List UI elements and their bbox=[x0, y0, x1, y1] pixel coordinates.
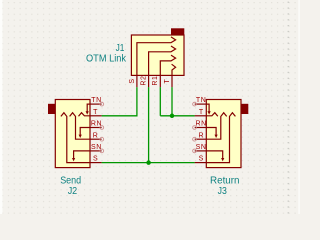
J1 contact R2 bbox=[149, 46, 176, 75]
wire T net horizontal to J3.T bbox=[160, 115, 195, 117]
J2 pin R bbox=[90, 138, 102, 140]
J2 pin SN bbox=[90, 150, 102, 152]
wire J1.T down bbox=[171, 87, 173, 116]
J1 body bbox=[131, 35, 184, 75]
svg-text:Send: Send bbox=[60, 175, 81, 186]
J3 pin S bbox=[195, 162, 207, 164]
svg-text:S: S bbox=[199, 156, 204, 163]
svg-text:TN: TN bbox=[91, 97, 102, 104]
J2 switch TN arrow bbox=[87, 104, 90, 112]
svg-text:OTM Link: OTM Link bbox=[86, 54, 127, 65]
svg-text:R: R bbox=[93, 132, 98, 139]
J1 sleeve mark bbox=[171, 28, 184, 35]
svg-text:SN: SN bbox=[196, 144, 207, 151]
J1 pin S bbox=[136, 75, 138, 87]
J2 switch SN arrow bbox=[74, 151, 90, 159]
J3 contact R bbox=[206, 113, 226, 140]
J2 pin TN bbox=[90, 103, 102, 105]
J3 contact S bbox=[206, 113, 235, 163]
wire J1.R2 down to S net bbox=[148, 87, 150, 163]
J2 switch RN arrow bbox=[80, 128, 90, 136]
svg-text:S: S bbox=[93, 156, 98, 163]
J2 pin T bbox=[90, 115, 102, 117]
svg-text:J2: J2 bbox=[68, 186, 78, 197]
svg-text:R1: R1 bbox=[152, 76, 159, 86]
J2 contact S bbox=[61, 113, 90, 163]
J1 pin T bbox=[171, 75, 173, 87]
svg-text:RN: RN bbox=[91, 121, 102, 128]
J2 pin RN bbox=[90, 127, 102, 129]
J3 switch SN arrow bbox=[206, 151, 222, 159]
svg-text:TN: TN bbox=[196, 97, 207, 104]
J3 pin R bbox=[195, 138, 207, 140]
svg-text:T: T bbox=[199, 109, 204, 116]
J3 switch TN arrow bbox=[206, 104, 209, 112]
J1 contact S bbox=[137, 37, 176, 76]
connector J1 bbox=[131, 28, 184, 87]
svg-text:Return: Return bbox=[210, 175, 240, 186]
J3 unconnected pin circles bbox=[193, 102, 197, 152]
J2 sleeve mark bbox=[48, 104, 55, 114]
wire J1.R1 to T net bbox=[159, 87, 161, 116]
J1 pin R1 bbox=[159, 75, 161, 87]
J2 contact T bbox=[79, 113, 91, 117]
J3 contact T bbox=[206, 113, 218, 117]
J2 unconnected pin circles bbox=[100, 102, 104, 152]
svg-text:J3: J3 bbox=[218, 186, 228, 197]
J1 pin R2 bbox=[148, 75, 150, 87]
J3 pin T bbox=[195, 115, 207, 117]
svg-text:S: S bbox=[129, 79, 136, 84]
svg-text:R: R bbox=[198, 132, 203, 139]
J2 pin S bbox=[90, 162, 102, 164]
connector J2 bbox=[48, 100, 102, 168]
J3 pin SN bbox=[195, 150, 207, 152]
svg-text:RN: RN bbox=[195, 121, 206, 128]
J3 sleeve mark bbox=[241, 104, 248, 114]
wire J1.S to J2.T bbox=[102, 87, 137, 116]
svg-text:SN: SN bbox=[91, 144, 102, 151]
J3 switch RN arrow bbox=[206, 128, 216, 136]
wire S net J2.S to J3.S bbox=[102, 162, 195, 164]
svg-text:R2: R2 bbox=[141, 76, 148, 86]
J1 contact T bbox=[172, 64, 176, 75]
junction T net bbox=[170, 114, 175, 119]
J3 body bbox=[206, 100, 241, 168]
svg-text:J1: J1 bbox=[116, 43, 125, 54]
J3 pin RN bbox=[195, 127, 207, 129]
J3 pin TN bbox=[195, 103, 207, 105]
junction S net bbox=[146, 160, 151, 165]
J1 contact R1 bbox=[160, 55, 175, 75]
connector J3 bbox=[195, 100, 249, 168]
J2 body bbox=[55, 100, 90, 168]
svg-text:T: T bbox=[164, 78, 171, 83]
svg-text:T: T bbox=[93, 109, 98, 116]
J2 contact R bbox=[70, 113, 90, 140]
